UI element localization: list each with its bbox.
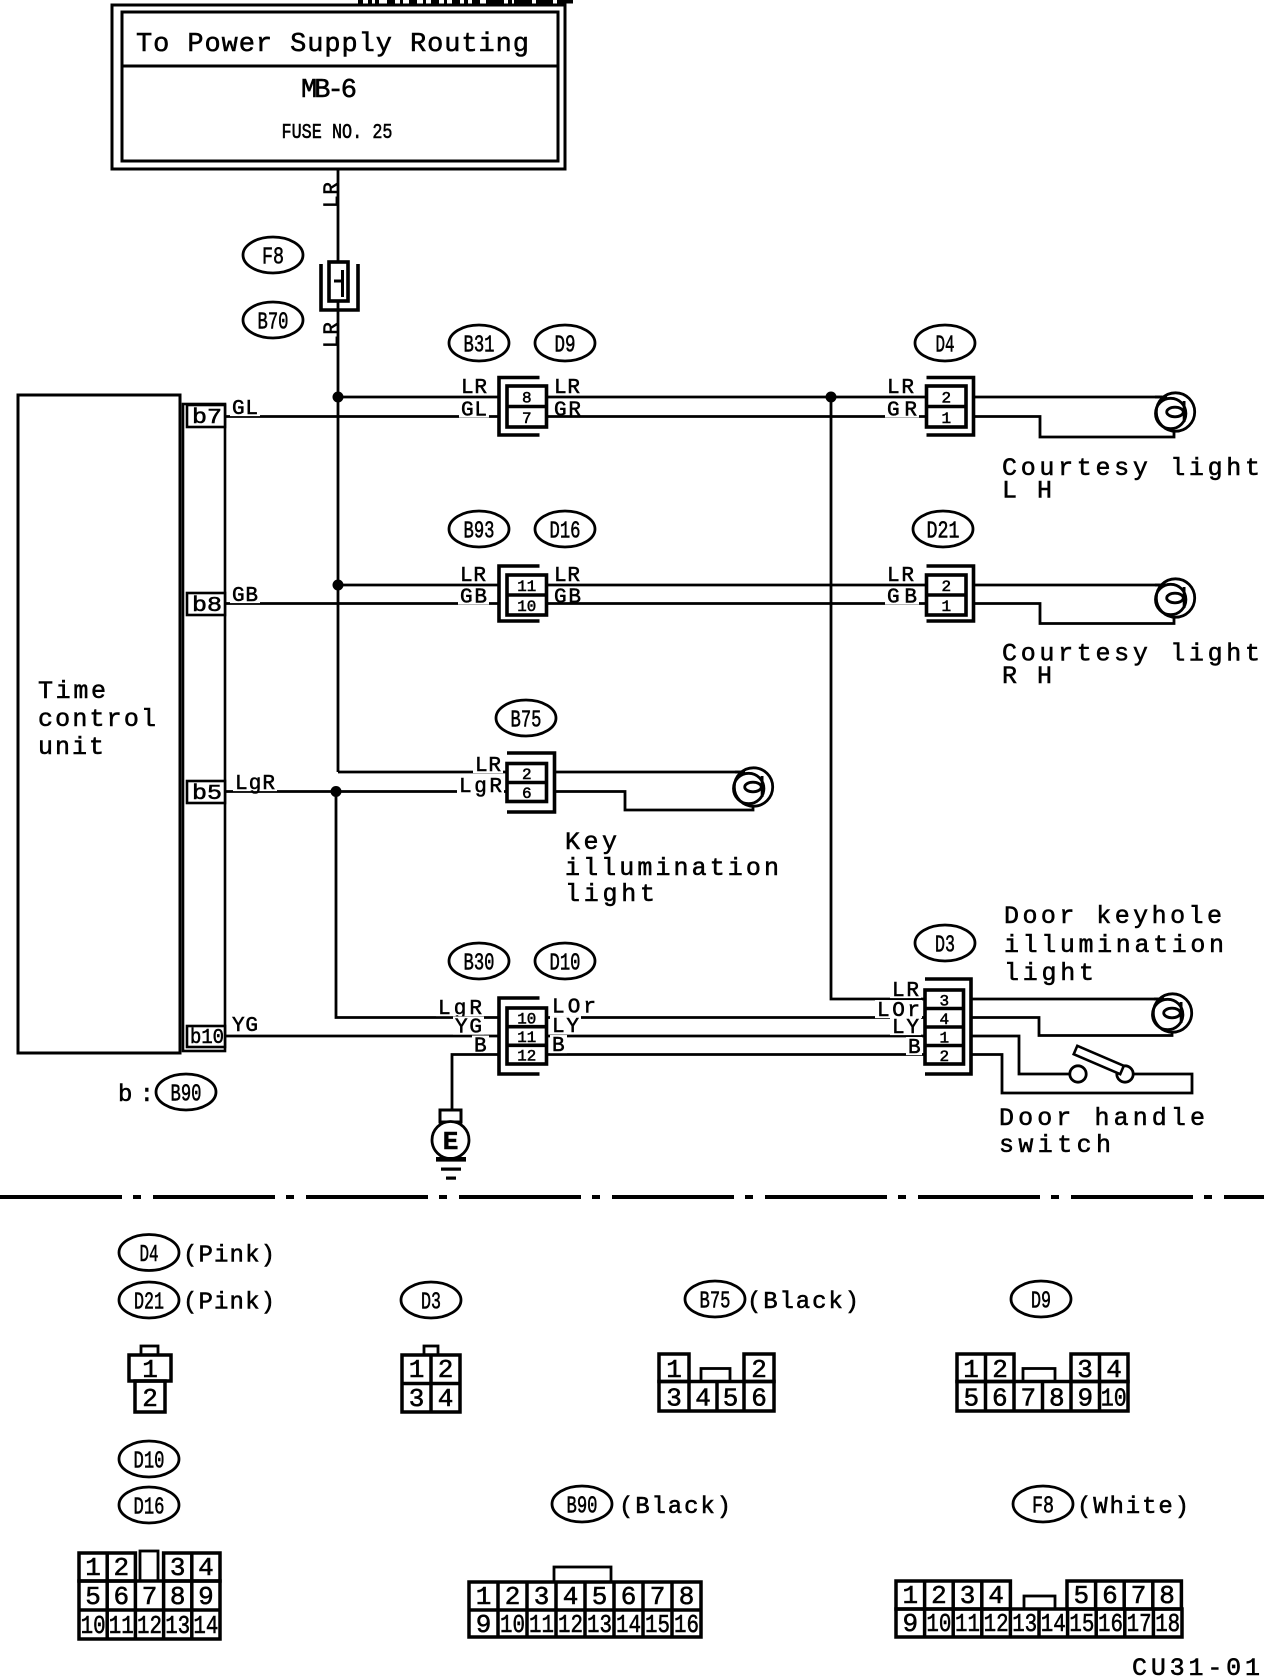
svg-text:11: 11 bbox=[109, 1611, 134, 1641]
connector oval B30 bbox=[449, 943, 509, 979]
svg-text:D3: D3 bbox=[935, 933, 955, 960]
svg-text:2: 2 bbox=[939, 1048, 949, 1066]
svg-text:12: 12 bbox=[984, 1609, 1009, 1639]
svg-text:5: 5 bbox=[723, 1384, 739, 1414]
svg-text:4: 4 bbox=[939, 1011, 949, 1029]
connector oval B75 bbox=[496, 700, 556, 736]
box divider bbox=[122, 65, 558, 68]
svg-text:light: light bbox=[565, 880, 655, 909]
svg-text:LR: LR bbox=[887, 377, 914, 400]
wire stub into RH bulb bbox=[1155, 584, 1166, 587]
door handle switch contacts bbox=[1070, 1066, 1086, 1082]
wire to courtesy light LH bbox=[974, 396, 1163, 399]
wire label GR at D4 bbox=[885, 400, 919, 418]
svg-text:(Black): (Black) bbox=[619, 1494, 731, 1521]
svg-text:15: 15 bbox=[1069, 1609, 1094, 1639]
svg-text:B75: B75 bbox=[700, 1289, 731, 1316]
wire label LY bbox=[550, 1016, 581, 1034]
legend oval D16 bbox=[119, 1487, 179, 1523]
wire label LR bbox=[459, 377, 489, 395]
svg-text:GL: GL bbox=[232, 398, 258, 421]
pinout D3 bbox=[424, 1346, 438, 1355]
courtesy light LH bulb bbox=[1156, 393, 1195, 431]
svg-text:1: 1 bbox=[409, 1355, 425, 1385]
svg-text:D9: D9 bbox=[555, 333, 576, 360]
svg-text:8: 8 bbox=[170, 1582, 186, 1612]
svg-text:FUSE NO. 25: FUSE NO. 25 bbox=[282, 122, 393, 145]
wire LR from power box to fuse bbox=[337, 169, 340, 264]
pin b8 bbox=[187, 593, 225, 615]
cut-off marks at top edge bbox=[358, 0, 363, 4]
svg-text:13: 13 bbox=[165, 1611, 190, 1641]
svg-text:2: 2 bbox=[113, 1553, 129, 1583]
svg-text:3: 3 bbox=[960, 1581, 976, 1611]
svg-text:GB: GB bbox=[460, 587, 487, 610]
svg-text:D16: D16 bbox=[134, 1495, 165, 1522]
svg-text:LR: LR bbox=[461, 377, 487, 400]
connector B31/D9 pins 8/7 bbox=[499, 378, 540, 436]
svg-text:unit: unit bbox=[38, 733, 104, 762]
wire label LgR at b5 bbox=[233, 773, 277, 791]
wire label LR at D21 bbox=[885, 565, 916, 583]
wire stub into keyhole bulb bbox=[1154, 998, 1164, 1001]
svg-text:Key: Key bbox=[565, 828, 617, 857]
svg-text:7: 7 bbox=[1131, 1581, 1147, 1611]
wire label LY at D3 bbox=[890, 1017, 921, 1035]
svg-text:B: B bbox=[552, 1035, 565, 1058]
connector B30/D10 pins 10/11/12 bbox=[499, 998, 540, 1074]
connector D4 pins 2/1 bbox=[927, 378, 974, 436]
svg-text:6: 6 bbox=[1102, 1581, 1118, 1611]
svg-text:B70: B70 bbox=[258, 310, 289, 337]
wire label LR right bbox=[552, 377, 582, 395]
wire LR branch to D4 bbox=[831, 396, 927, 399]
wire to key illumination bulb bbox=[555, 771, 742, 774]
svg-text:D3: D3 bbox=[421, 1290, 441, 1317]
svg-text:5: 5 bbox=[592, 1582, 608, 1612]
connector oval F8 bbox=[243, 237, 303, 273]
svg-text:1: 1 bbox=[476, 1582, 492, 1612]
wire LOr to D3 bbox=[547, 1016, 926, 1019]
svg-text:4: 4 bbox=[563, 1582, 579, 1612]
svg-text:3: 3 bbox=[939, 992, 949, 1010]
svg-text:illumination: illumination bbox=[1004, 931, 1224, 960]
svg-text:D16: D16 bbox=[550, 519, 581, 546]
svg-text:(Black): (Black) bbox=[747, 1289, 859, 1316]
svg-text:MB-6: MB-6 bbox=[301, 76, 357, 106]
wire LgR from b5 to connector bbox=[225, 790, 507, 793]
wire label GL bbox=[459, 400, 489, 418]
svg-text:10: 10 bbox=[500, 1610, 525, 1640]
svg-text:4: 4 bbox=[198, 1553, 214, 1583]
svg-text:B90: B90 bbox=[171, 1082, 202, 1109]
svg-text:LR: LR bbox=[322, 182, 345, 208]
connector oval D21 bbox=[913, 511, 973, 547]
svg-text:control: control bbox=[38, 705, 156, 734]
svg-text:3: 3 bbox=[666, 1384, 682, 1414]
svg-text:LR: LR bbox=[322, 322, 345, 348]
wire label LR at D4 bbox=[885, 377, 916, 395]
svg-text:2: 2 bbox=[505, 1582, 521, 1612]
svg-text:Door keyhole: Door keyhole bbox=[1004, 902, 1222, 931]
connector oval D9 bbox=[535, 325, 595, 361]
svg-text:F8: F8 bbox=[1032, 1494, 1054, 1521]
pin b5 bbox=[187, 781, 225, 803]
wire label YG bbox=[453, 1017, 484, 1035]
svg-text:LR: LR bbox=[887, 565, 914, 588]
svg-text:16: 16 bbox=[674, 1610, 699, 1640]
svg-text:YG: YG bbox=[232, 1015, 258, 1038]
pinout F8 bbox=[896, 1581, 1010, 1609]
svg-text:LR: LR bbox=[460, 565, 486, 588]
connector D3 pins 3/4/1/2 bbox=[925, 979, 971, 1074]
svg-text:Door handle: Door handle bbox=[999, 1104, 1205, 1133]
connector oval D16 bbox=[535, 511, 595, 547]
svg-text:2: 2 bbox=[941, 578, 951, 596]
svg-text:2: 2 bbox=[142, 1384, 158, 1414]
connector oval B31 bbox=[449, 325, 509, 361]
svg-text:6: 6 bbox=[113, 1582, 129, 1612]
power supply routing box inner bbox=[122, 12, 558, 161]
svg-text:b5: b5 bbox=[192, 783, 222, 806]
svg-text:10: 10 bbox=[517, 1010, 536, 1028]
wire label GR right bbox=[552, 400, 583, 418]
svg-text:7: 7 bbox=[1020, 1384, 1036, 1414]
svg-text:15: 15 bbox=[645, 1610, 670, 1640]
wire label LR at D3 bbox=[890, 980, 921, 998]
svg-text:8: 8 bbox=[679, 1582, 695, 1612]
wire LR to D4 branch bbox=[547, 396, 832, 399]
wire GR to LH bulb bottom bbox=[974, 417, 1175, 438]
svg-text:1: 1 bbox=[85, 1553, 101, 1583]
wire label GB at D21 bbox=[885, 587, 919, 605]
legend oval F8 bbox=[1013, 1486, 1073, 1522]
svg-text:D21: D21 bbox=[927, 519, 960, 546]
junction dot LR row2 bbox=[333, 580, 344, 591]
legend oval B75 bbox=[685, 1281, 745, 1317]
svg-text:B31: B31 bbox=[464, 333, 495, 360]
svg-text:4: 4 bbox=[988, 1581, 1004, 1611]
svg-text:(Pink): (Pink) bbox=[183, 1290, 275, 1317]
wire LR to D21 bbox=[547, 584, 927, 587]
svg-text:12: 12 bbox=[137, 1611, 162, 1641]
time control unit box bbox=[18, 395, 180, 1053]
svg-text:6: 6 bbox=[621, 1582, 637, 1612]
svg-text:B: B bbox=[908, 1037, 921, 1060]
svg-text:9: 9 bbox=[902, 1609, 918, 1639]
legend oval D10 bbox=[119, 1441, 179, 1477]
wire GR to D4 bbox=[547, 415, 927, 418]
svg-text:D4: D4 bbox=[140, 1242, 159, 1269]
svg-text:LR: LR bbox=[475, 755, 501, 778]
svg-text:2: 2 bbox=[438, 1355, 454, 1385]
ground bar 3 bbox=[446, 1177, 456, 1180]
wire label B at D3 bbox=[906, 1037, 922, 1055]
svg-text:D10: D10 bbox=[550, 951, 581, 978]
svg-text:GB: GB bbox=[554, 587, 581, 610]
wire label YG at b10 bbox=[230, 1015, 260, 1033]
svg-text:7: 7 bbox=[142, 1582, 158, 1612]
svg-text:8: 8 bbox=[1049, 1384, 1065, 1414]
pinout D10/D16 bbox=[140, 1551, 158, 1581]
svg-text:2: 2 bbox=[522, 766, 532, 784]
wire LOr to keyhole bulb bottom bbox=[971, 1018, 1172, 1036]
svg-text:b :: b : bbox=[118, 1082, 154, 1109]
svg-text:b7: b7 bbox=[192, 407, 222, 430]
connector oval B70 bbox=[243, 302, 303, 338]
svg-text:LgR: LgR bbox=[459, 776, 502, 799]
svg-text:b8: b8 bbox=[192, 595, 222, 618]
door keyhole illumination light bulb bbox=[1153, 994, 1192, 1032]
svg-text:E: E bbox=[443, 1127, 459, 1157]
junction dot LR row1 bbox=[333, 392, 344, 403]
wire B to D3 bbox=[547, 1053, 926, 1056]
connector B93/D16 pins 11/10 bbox=[499, 566, 540, 621]
svg-text:B90: B90 bbox=[567, 1494, 598, 1521]
wire label GB right bbox=[552, 587, 583, 605]
svg-text:8: 8 bbox=[1159, 1581, 1175, 1611]
wire GB to RH bulb bottom bbox=[974, 604, 1175, 624]
svg-text:3: 3 bbox=[409, 1384, 425, 1414]
ground terminal E bbox=[440, 1110, 461, 1122]
svg-text:13: 13 bbox=[1012, 1609, 1037, 1639]
svg-text:10: 10 bbox=[81, 1611, 106, 1641]
svg-text:8: 8 bbox=[522, 389, 532, 407]
legend oval D9 bbox=[1011, 1281, 1071, 1317]
wire stub into LH bulb bbox=[1155, 396, 1167, 399]
section divider dash-dot line bbox=[0, 1195, 1264, 1199]
legend oval D4 bbox=[119, 1235, 179, 1271]
svg-text:10: 10 bbox=[517, 598, 536, 616]
pin b10 bbox=[187, 1026, 225, 1047]
legend oval D21 bbox=[119, 1282, 179, 1318]
svg-text:B30: B30 bbox=[464, 951, 495, 978]
svg-text:GL: GL bbox=[461, 400, 487, 423]
pinout D9 bbox=[957, 1354, 1014, 1382]
wire LgR branch down to B30/D10 bbox=[336, 792, 499, 1018]
connector oval D10 bbox=[535, 943, 595, 979]
svg-text:5: 5 bbox=[85, 1582, 101, 1612]
pinout B75 bbox=[659, 1354, 689, 1382]
svg-text:illumination: illumination bbox=[565, 854, 779, 883]
pin b7 bbox=[187, 405, 225, 427]
svg-text:13: 13 bbox=[587, 1610, 612, 1640]
ground bar 2 bbox=[441, 1168, 461, 1171]
svg-text:9: 9 bbox=[1077, 1384, 1093, 1414]
svg-text:switch: switch bbox=[999, 1131, 1111, 1160]
power supply routing box outer bbox=[112, 5, 565, 169]
svg-text:b10: b10 bbox=[190, 1027, 224, 1050]
svg-text:7: 7 bbox=[522, 410, 532, 428]
svg-text:(Pink): (Pink) bbox=[183, 1243, 275, 1270]
svg-text:1: 1 bbox=[902, 1581, 918, 1611]
wire label LgR bbox=[436, 998, 484, 1016]
svg-text:11: 11 bbox=[517, 1029, 536, 1047]
wire pin2 around to switch bbox=[971, 1055, 1192, 1094]
svg-text:18: 18 bbox=[1155, 1609, 1180, 1639]
svg-text:6: 6 bbox=[992, 1384, 1008, 1414]
svg-text:11: 11 bbox=[529, 1610, 554, 1640]
svg-text:4: 4 bbox=[438, 1384, 454, 1414]
switch lever bbox=[1074, 1046, 1124, 1074]
wire GB to D21 bbox=[547, 602, 927, 605]
svg-text:17: 17 bbox=[1127, 1609, 1152, 1639]
connector D21 pins 2/1 bbox=[927, 566, 974, 621]
svg-text:D10: D10 bbox=[134, 1449, 165, 1476]
wire label LgR bbox=[457, 776, 504, 794]
wire label LR right bbox=[552, 565, 582, 583]
svg-text:10: 10 bbox=[1101, 1384, 1127, 1414]
svg-text:6: 6 bbox=[751, 1384, 767, 1414]
svg-text:GR: GR bbox=[554, 400, 581, 423]
junction dot LgR branch down bbox=[331, 786, 342, 797]
svg-text:9: 9 bbox=[198, 1582, 214, 1612]
svg-text:D21: D21 bbox=[134, 1290, 164, 1317]
svg-text:LgR: LgR bbox=[235, 773, 275, 796]
courtesy light RH bulb bbox=[1156, 579, 1195, 617]
svg-text:To Power Supply Routing: To Power Supply Routing bbox=[136, 30, 529, 60]
wire GL from b7 to connector bbox=[225, 415, 499, 418]
connector oval D3 bbox=[915, 925, 975, 961]
wire stub into key bulb bbox=[735, 771, 745, 774]
svg-text:GB: GB bbox=[232, 585, 258, 608]
svg-text:5: 5 bbox=[1073, 1581, 1089, 1611]
svg-text:4: 4 bbox=[695, 1384, 711, 1414]
legend oval B90 bbox=[552, 1486, 612, 1522]
svg-text:3: 3 bbox=[534, 1582, 550, 1612]
wire label LOr bbox=[550, 997, 598, 1015]
svg-text:1: 1 bbox=[941, 410, 951, 428]
ground bar 1 bbox=[436, 1157, 466, 1162]
svg-text:7: 7 bbox=[650, 1582, 666, 1612]
svg-text:(White): (White) bbox=[1077, 1494, 1189, 1521]
svg-text:2: 2 bbox=[941, 389, 951, 407]
svg-text:D4: D4 bbox=[936, 333, 955, 360]
wire LR row1 to connector B31/D9 bbox=[338, 396, 499, 399]
wire YG from b10 to connector bbox=[225, 1035, 499, 1038]
wire GB from b8 to connector bbox=[225, 602, 499, 605]
svg-text:14: 14 bbox=[1041, 1609, 1066, 1639]
wire to door keyhole bulb bbox=[971, 998, 1160, 1001]
svg-text:10: 10 bbox=[926, 1609, 951, 1639]
svg-text:12: 12 bbox=[558, 1610, 583, 1640]
svg-text:1: 1 bbox=[939, 1029, 949, 1047]
svg-text:2: 2 bbox=[931, 1581, 947, 1611]
svg-text:12: 12 bbox=[517, 1048, 536, 1066]
junction dot LR to D3 drop bbox=[826, 392, 837, 403]
wire to courtesy light RH bbox=[974, 584, 1162, 587]
svg-text:11: 11 bbox=[955, 1609, 980, 1639]
wire LgR to key bulb bottom bbox=[555, 792, 754, 811]
time control unit pin strip bbox=[183, 404, 225, 1051]
svg-text:Time: Time bbox=[38, 677, 106, 706]
svg-text:14: 14 bbox=[616, 1610, 641, 1640]
svg-text:B75: B75 bbox=[511, 708, 542, 735]
svg-text:light: light bbox=[1004, 959, 1094, 988]
wire label GL at b7 bbox=[230, 398, 260, 416]
legend oval D3 bbox=[401, 1282, 461, 1318]
wire label GB bbox=[458, 587, 489, 605]
wire LR elbow to connector B75 bbox=[338, 771, 507, 774]
connector oval D4 bbox=[915, 325, 975, 361]
key illumination light bulb bbox=[734, 768, 773, 806]
svg-text:14: 14 bbox=[193, 1611, 218, 1641]
svg-text:B93: B93 bbox=[464, 519, 495, 546]
wire label GB at b8 bbox=[230, 585, 260, 603]
svg-text:6: 6 bbox=[522, 785, 532, 803]
connector oval B93 bbox=[449, 511, 509, 547]
wire LR drop from row1 to D3 pin3 bbox=[831, 397, 925, 999]
wire pin1 to switch bbox=[971, 1036, 1070, 1074]
svg-text:1: 1 bbox=[941, 598, 951, 616]
pinout B90 bbox=[554, 1567, 611, 1582]
wire LY to D3 bbox=[547, 1035, 926, 1038]
svg-text:5: 5 bbox=[963, 1384, 979, 1414]
wire B to ground bbox=[452, 1055, 499, 1111]
svg-text:F8: F8 bbox=[262, 245, 284, 272]
wire label LR bbox=[473, 755, 503, 773]
svg-text:CU31-01: CU31-01 bbox=[1132, 1654, 1260, 1678]
wire LR from fuse down to row3 elbow bbox=[337, 301, 340, 772]
wire label LR bbox=[458, 565, 488, 583]
pinout D4/D21 bbox=[141, 1346, 158, 1355]
svg-text:D9: D9 bbox=[1031, 1289, 1051, 1316]
svg-text:16: 16 bbox=[1098, 1609, 1123, 1639]
svg-text:3: 3 bbox=[170, 1553, 186, 1583]
svg-text:9: 9 bbox=[476, 1610, 492, 1640]
wire label B bbox=[550, 1035, 567, 1053]
fuse F8 no.1 bbox=[321, 264, 358, 310]
wire label LOr at D3 bbox=[875, 1000, 922, 1018]
connector B75 pins 2/6 bbox=[507, 753, 555, 812]
wire LR row2 to connector B93/D16 bbox=[338, 584, 499, 587]
svg-text:11: 11 bbox=[517, 578, 536, 596]
wire label B bbox=[472, 1036, 489, 1054]
